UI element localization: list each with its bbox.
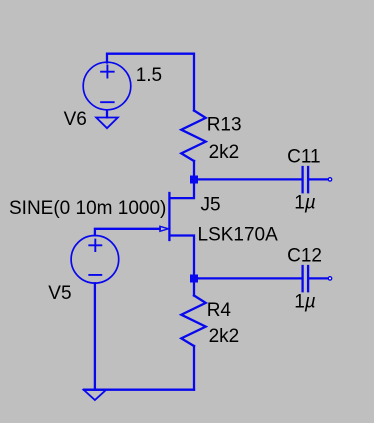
wire R4 bottom to ground rail	[193, 346, 195, 390]
ground at bottom	[84, 390, 106, 400]
wire source node to C12	[196, 277, 301, 279]
wire C11 to port	[309, 178, 328, 180]
svg-text:R4: R4	[207, 300, 232, 321]
node drain junction	[190, 176, 198, 184]
transistor J5 channel bar	[168, 193, 170, 240]
wire V6 bottom stub	[106, 111, 108, 118]
svg-text:1.5: 1.5	[136, 65, 162, 86]
svg-text:LSK170A: LSK170A	[198, 224, 279, 245]
wire V5 bottom stub	[94, 283, 96, 389]
wire drain node to JFET drain	[170, 179, 194, 198]
svg-text:1µ: 1µ	[294, 193, 316, 214]
svg-text:V5: V5	[48, 283, 71, 304]
wire R13 bottom to drain node	[193, 161, 195, 179]
svg-text:J5: J5	[201, 195, 221, 216]
wire C12 to port	[309, 277, 328, 279]
voltage source V6	[83, 62, 131, 110]
capacitor C11	[303, 167, 309, 192]
capacitor C12	[303, 266, 309, 291]
svg-text:1µ: 1µ	[294, 292, 316, 313]
wire drain node to C11	[196, 178, 301, 180]
svg-text:2k2: 2k2	[209, 142, 240, 163]
wire V6 top to R13 top	[107, 54, 194, 111]
ground under V6	[96, 118, 118, 129]
svg-text:C12: C12	[287, 246, 322, 267]
svg-text:V6: V6	[64, 109, 87, 130]
node source junction	[190, 275, 198, 283]
resistor R4	[181, 296, 205, 347]
svg-text:2k2: 2k2	[209, 326, 240, 347]
wire ground rail	[84, 389, 194, 391]
wire V5 to gate	[95, 229, 160, 236]
svg-text:C11: C11	[287, 147, 320, 168]
gate arrow	[160, 226, 169, 231]
port circle C11	[328, 178, 331, 181]
svg-text:SINE(0 10m 1000): SINE(0 10m 1000)	[9, 198, 166, 219]
voltage source V5	[71, 235, 119, 283]
port circle C12	[328, 277, 331, 280]
resistor R13	[181, 111, 205, 162]
svg-text:R13: R13	[207, 115, 242, 136]
wire JFET source to source node and R4	[170, 236, 194, 296]
